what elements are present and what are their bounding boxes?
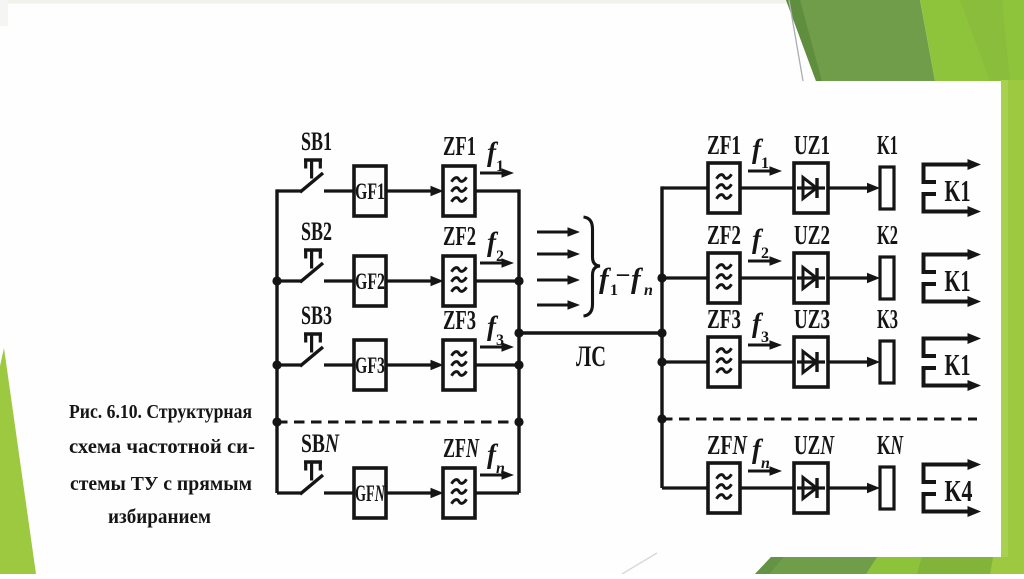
band filter ZF2 (left) <box>443 221 476 306</box>
band filter ZF1 (left) <box>443 131 476 216</box>
wire: ZF3 to collector bus <box>475 363 519 366</box>
svg-text:GFN: GFN <box>355 481 386 506</box>
wire: SB1 to GF1 <box>324 189 354 192</box>
generator GFN <box>354 468 386 518</box>
svg-text:UZ2: UZ2 <box>794 220 830 250</box>
demodulator UZN with diode <box>794 430 835 513</box>
switch SBN <box>277 429 340 494</box>
svg-text:2: 2 <box>761 245 769 262</box>
svg-text:GF3: GF3 <box>355 353 385 378</box>
wire: UZ3 to relay K3 with arrow <box>828 357 880 368</box>
dashed separator (right half) <box>662 418 977 421</box>
svg-text:1: 1 <box>761 155 769 172</box>
svg-text:K1: K1 <box>945 347 971 382</box>
node f3 label (right) <box>748 308 782 350</box>
switch SB1 <box>277 127 332 192</box>
arrows: transmitted frequencies <box>537 227 580 310</box>
svg-text:ZF1: ZF1 <box>443 131 476 161</box>
junction dots left buses <box>272 276 523 426</box>
wire: SBN to GFN <box>324 491 354 494</box>
svg-text:ZFN: ZFN <box>443 433 480 463</box>
wire: bus to ZF3 (right) <box>662 360 708 363</box>
relay coil K1 <box>877 130 898 209</box>
generator GF2 <box>354 256 386 306</box>
wire: bus to ZF1 (right) <box>662 186 708 189</box>
wire: right distribution bus <box>660 186 663 488</box>
switch SB2 <box>277 217 332 282</box>
svg-text:KN: KN <box>877 430 904 460</box>
band filter ZF1 (right) <box>707 130 741 213</box>
svg-text:Рис. 6.10. Структурная: Рис. 6.10. Структурная <box>69 401 252 423</box>
band filter ZF2 (right) <box>707 220 741 303</box>
svg-text:SB2: SB2 <box>301 217 332 246</box>
contact output K1 <box>924 333 982 391</box>
svg-text:–: – <box>616 261 630 287</box>
svg-text:избиранием: избиранием <box>108 506 211 528</box>
wire: UZ2 to relay K2 with arrow <box>828 273 880 284</box>
svg-text:GF1: GF1 <box>355 179 385 204</box>
svg-text:стемы ТУ с прямым: стемы ТУ с прямым <box>70 473 252 495</box>
svg-text:ZF3: ZF3 <box>443 305 476 335</box>
band filter ZFN (right) <box>707 430 748 513</box>
caption: figure title <box>69 401 255 528</box>
svg-text:схема частотной си-: схема частотной си- <box>69 436 255 458</box>
node f1 label (right) <box>748 134 782 176</box>
wire: left input bus <box>275 189 278 493</box>
wire: ZF3 to UZ3 <box>740 360 794 363</box>
svg-text:ЛС: ЛС <box>576 340 606 373</box>
wire: GF3 to ZF3 with arrow <box>386 360 444 371</box>
switch SB3 <box>277 301 332 366</box>
junction dots right bus <box>657 273 666 423</box>
relay coil KN <box>877 430 904 509</box>
svg-text:ZF2: ZF2 <box>443 221 476 251</box>
relay coil K3 <box>877 304 898 383</box>
svg-text:UZ3: UZ3 <box>794 304 830 334</box>
wire: ZFN to UZN <box>740 486 794 489</box>
node fN label (right) <box>748 434 782 476</box>
contact output K4 <box>924 459 982 517</box>
wire: UZ1 to relay K1 with arrow <box>828 183 880 194</box>
band filter ZF3 (left) <box>443 305 476 390</box>
svg-text:n: n <box>644 282 653 299</box>
svg-text:n: n <box>761 455 770 472</box>
node f3 output label (left) <box>480 311 514 352</box>
svg-text:3: 3 <box>761 329 769 346</box>
node f2 label (right) <box>748 224 782 266</box>
demodulator UZ1 with diode <box>794 130 830 213</box>
demodulator UZ3 with diode <box>794 304 830 387</box>
svg-text:K1: K1 <box>945 263 971 298</box>
svg-text:K3: K3 <box>877 304 898 334</box>
contact output K1 <box>924 249 982 307</box>
generator GF1 <box>354 166 386 216</box>
node f1 output label (left) <box>480 137 514 178</box>
demodulator UZ2 with diode <box>794 220 830 303</box>
svg-text:SB1: SB1 <box>301 127 332 156</box>
svg-text:GF2: GF2 <box>355 269 385 294</box>
wire: UZN to relay KN with arrow <box>828 483 880 494</box>
contact output K1 <box>924 159 982 217</box>
svg-text:UZ1: UZ1 <box>794 130 830 160</box>
node f2 output label (left) <box>480 227 514 268</box>
wire: SB2 to GF2 <box>324 279 354 282</box>
svg-text:UZN: UZN <box>794 430 835 460</box>
band filter ZFN (left) <box>443 433 480 518</box>
node fN output label (left) <box>480 439 514 480</box>
wire: bus to ZF2 (right) <box>662 276 708 279</box>
brace <box>584 217 601 316</box>
wire: ZF2 to collector bus <box>475 279 519 282</box>
svg-text:ZFN: ZFN <box>707 430 748 460</box>
wire: bus to ZFN (right) <box>662 486 708 489</box>
wire: GF1 to ZF1 with arrow <box>386 186 444 197</box>
svg-text:SBN: SBN <box>301 429 340 458</box>
dashed separator (left half) <box>277 421 519 424</box>
wire: ZF1 to collector bus <box>475 189 519 192</box>
wire: GF2 to ZF2 with arrow <box>386 276 444 287</box>
wire: ZF1 to UZ1 <box>740 186 794 189</box>
generator GF3 <box>354 340 386 390</box>
svg-text:K4: K4 <box>945 473 973 508</box>
node label f1-fn <box>599 261 653 299</box>
wire: GFN to ZFN with arrow <box>386 488 444 499</box>
svg-text:K1: K1 <box>877 130 898 160</box>
wire: line LS between buses <box>519 331 662 334</box>
wire: SB3 to GF3 <box>324 363 354 366</box>
wire: ZFN to collector bus <box>475 491 519 494</box>
relay coil K2 <box>877 220 898 299</box>
svg-text:SB3: SB3 <box>301 301 332 330</box>
wire: left collector bus <box>517 189 520 493</box>
svg-text:ZF2: ZF2 <box>707 220 741 250</box>
wire: ZF2 to UZ2 <box>740 276 794 279</box>
net label LS <box>576 340 606 373</box>
svg-text:ZF3: ZF3 <box>707 304 741 334</box>
svg-text:ZF1: ZF1 <box>707 130 741 160</box>
band filter ZF3 (right) <box>707 304 741 387</box>
svg-text:K2: K2 <box>877 220 898 250</box>
svg-text:K1: K1 <box>945 173 971 208</box>
